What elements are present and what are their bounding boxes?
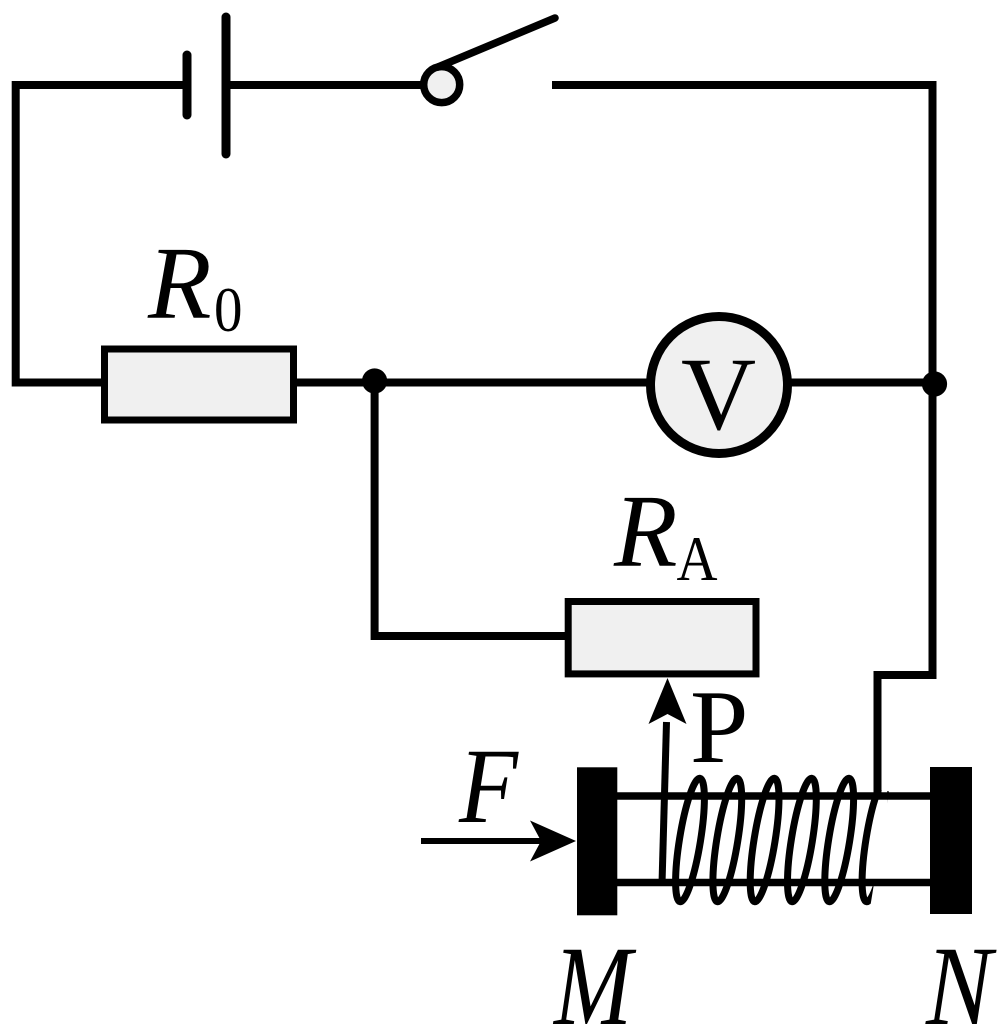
svg-text:M: M xyxy=(552,924,637,1030)
svg-text:P: P xyxy=(690,668,748,785)
svg-text:R: R xyxy=(613,474,678,589)
svg-text:N: N xyxy=(925,924,997,1030)
svg-text:A: A xyxy=(677,523,718,594)
svg-text:0: 0 xyxy=(214,274,243,345)
svg-text:F: F xyxy=(458,728,519,846)
svg-text:V: V xyxy=(681,337,756,452)
svg-text:R: R xyxy=(147,226,212,341)
